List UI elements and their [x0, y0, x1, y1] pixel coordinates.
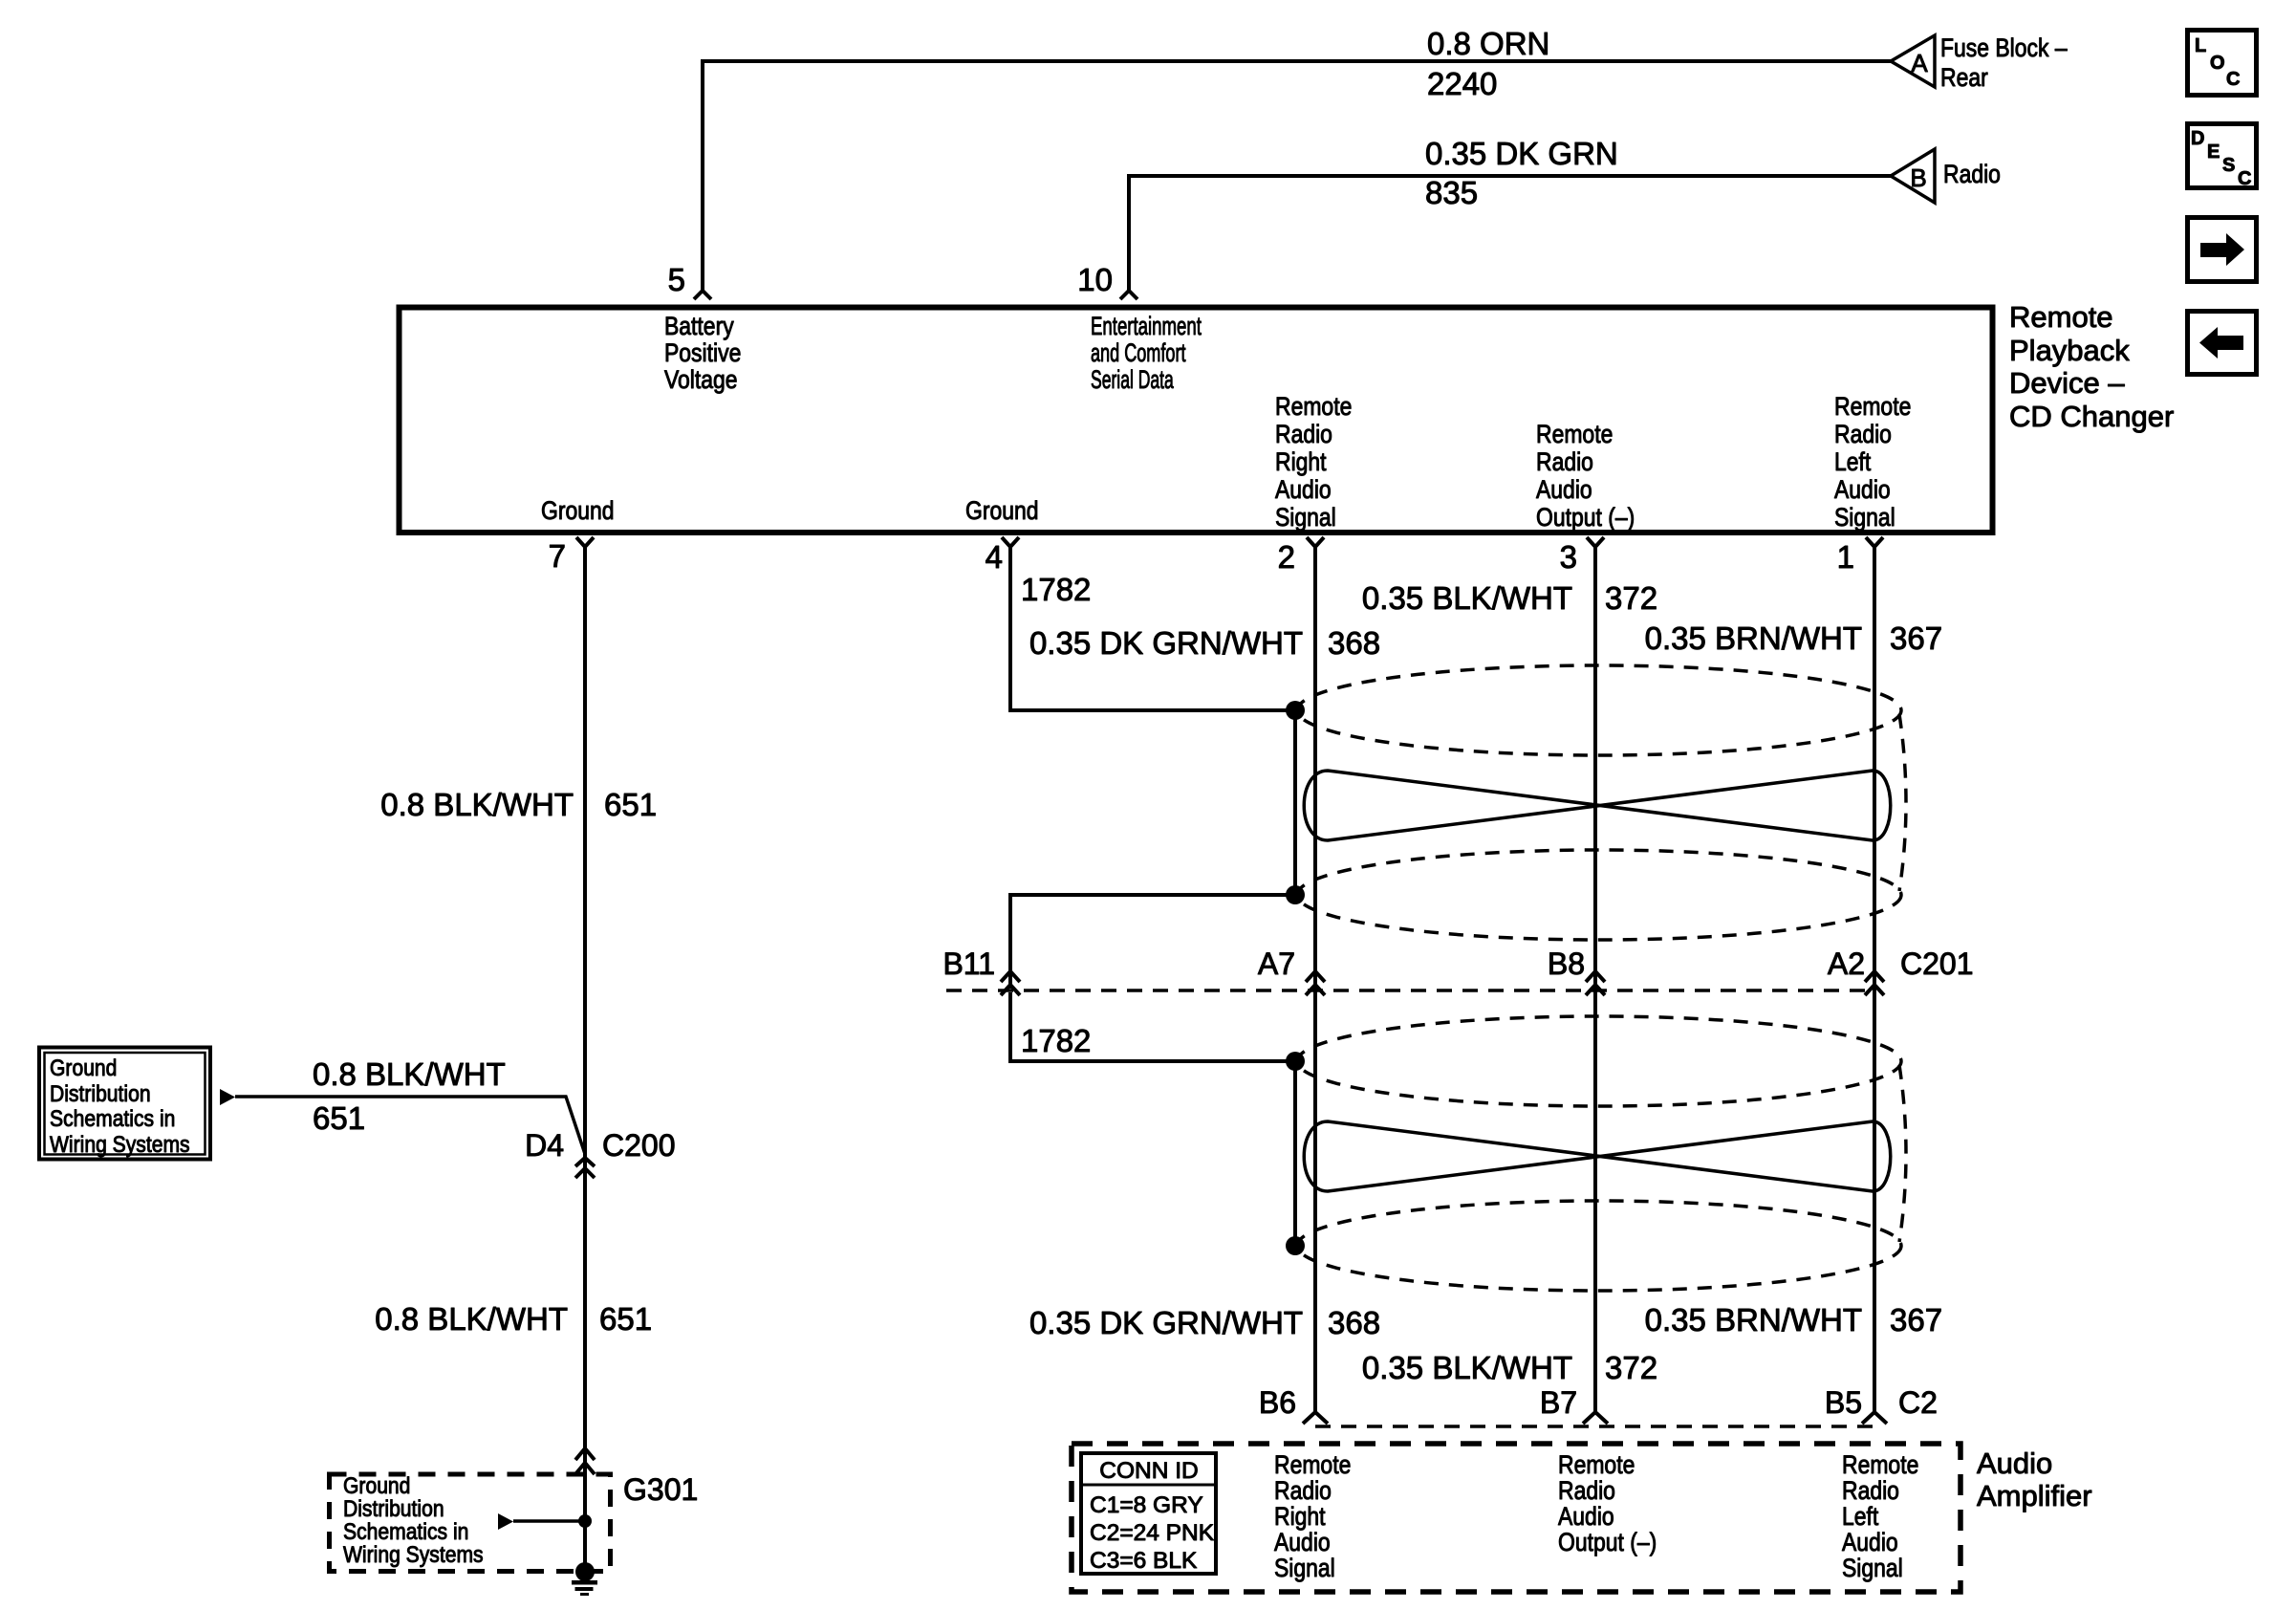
svg-text:0.8 BLK/WHT: 0.8 BLK/WHT [380, 787, 574, 822]
svg-text:835: 835 [1425, 175, 1478, 210]
svg-text:Audio: Audio [1275, 475, 1332, 504]
svg-text:0.35 BRN/WHT: 0.35 BRN/WHT [1645, 1302, 1862, 1338]
svg-text:Entertainment: Entertainment [1091, 312, 1202, 340]
svg-text:B5: B5 [1825, 1385, 1862, 1420]
svg-text:Remote: Remote [1834, 392, 1911, 421]
svg-text:Radio: Radio [1943, 160, 2001, 188]
svg-text:Playback: Playback [2009, 334, 2130, 367]
svg-text:Audio: Audio [1977, 1447, 2052, 1480]
svg-text:Audio: Audio [1842, 1528, 1898, 1556]
svg-text:0.35 BLK/WHT: 0.35 BLK/WHT [1362, 1350, 1572, 1385]
svg-text:C2: C2 [1898, 1385, 1938, 1420]
svg-text:Remote: Remote [1536, 420, 1613, 448]
svg-text:0.8 BLK/WHT: 0.8 BLK/WHT [313, 1056, 506, 1092]
svg-text:Rear: Rear [1940, 63, 1988, 92]
svg-text:Radio: Radio [1842, 1476, 1899, 1505]
svg-text:Signal: Signal [1275, 503, 1336, 532]
svg-text:Voltage: Voltage [664, 365, 738, 394]
svg-text:Remote: Remote [1558, 1450, 1635, 1479]
svg-text:372: 372 [1605, 1350, 1657, 1385]
svg-text:4: 4 [986, 539, 1003, 575]
svg-text:Amplifier: Amplifier [1977, 1479, 2092, 1512]
svg-text:Audio: Audio [1558, 1502, 1614, 1531]
svg-text:Audio: Audio [1834, 475, 1891, 504]
svg-text:2: 2 [1278, 539, 1295, 575]
svg-text:C1=8 GRY: C1=8 GRY [1090, 1492, 1203, 1518]
svg-text:0.35 DK GRN/WHT: 0.35 DK GRN/WHT [1029, 625, 1303, 661]
svg-text:368: 368 [1328, 625, 1380, 661]
svg-text:C3=6 BLK: C3=6 BLK [1090, 1548, 1198, 1574]
svg-text:Battery: Battery [664, 312, 734, 340]
svg-text:Fuse Block –: Fuse Block – [1940, 33, 2068, 62]
svg-text:A7: A7 [1258, 946, 1295, 981]
svg-text:C200: C200 [602, 1128, 676, 1163]
svg-text:367: 367 [1890, 1302, 1942, 1338]
svg-text:Ground: Ground [50, 1055, 117, 1081]
svg-text:Ground: Ground [343, 1473, 410, 1499]
svg-text:Distribution: Distribution [343, 1496, 444, 1522]
svg-text:5: 5 [668, 262, 685, 297]
svg-text:0.35 DK GRN/WHT: 0.35 DK GRN/WHT [1029, 1305, 1303, 1340]
svg-text:B11: B11 [942, 946, 995, 981]
svg-text:O: O [2210, 53, 2225, 74]
svg-text:Radio: Radio [1275, 420, 1332, 448]
svg-text:CONN ID: CONN ID [1099, 1458, 1198, 1484]
svg-text:Schematics in: Schematics in [343, 1519, 468, 1545]
svg-text:Output (–): Output (–) [1536, 503, 1635, 532]
svg-text:A: A [1911, 49, 1928, 77]
svg-text:Wiring Systems: Wiring Systems [50, 1132, 190, 1158]
svg-text:Remote: Remote [1274, 1450, 1351, 1479]
svg-text:Audio: Audio [1274, 1528, 1331, 1556]
svg-text:Ground: Ground [965, 496, 1039, 525]
svg-text:S: S [2222, 155, 2235, 176]
svg-text:Radio: Radio [1558, 1476, 1615, 1505]
svg-text:0.35 BRN/WHT: 0.35 BRN/WHT [1645, 620, 1862, 656]
svg-text:Serial Data: Serial Data [1091, 364, 1174, 394]
svg-text:A2: A2 [1828, 946, 1865, 981]
svg-text:C201: C201 [1900, 946, 1974, 981]
svg-text:10: 10 [1077, 262, 1113, 297]
svg-text:Remote: Remote [1842, 1450, 1918, 1479]
svg-text:Signal: Signal [1274, 1554, 1335, 1582]
svg-text:Right: Right [1274, 1502, 1326, 1531]
svg-text:B6: B6 [1259, 1385, 1296, 1420]
svg-text:L: L [2195, 35, 2206, 56]
svg-text:Remote: Remote [1275, 392, 1352, 421]
svg-text:Signal: Signal [1834, 503, 1895, 532]
svg-text:Schematics in: Schematics in [50, 1106, 175, 1132]
svg-text:372: 372 [1605, 580, 1657, 616]
svg-text:1: 1 [1837, 539, 1854, 575]
svg-text:Right: Right [1275, 447, 1327, 476]
svg-text:Left: Left [1834, 447, 1871, 476]
svg-text:3: 3 [1560, 539, 1577, 575]
svg-text:B8: B8 [1548, 946, 1585, 981]
svg-text:D4: D4 [525, 1128, 564, 1163]
svg-text:0.35 BLK/WHT: 0.35 BLK/WHT [1362, 580, 1572, 616]
svg-text:7: 7 [549, 538, 566, 574]
svg-text:Positive: Positive [664, 338, 741, 367]
svg-text:C2=24 PNK: C2=24 PNK [1090, 1520, 1215, 1546]
svg-text:Wiring Systems: Wiring Systems [343, 1542, 484, 1568]
svg-text:1782: 1782 [1021, 572, 1091, 607]
svg-text:0.8 BLK/WHT: 0.8 BLK/WHT [375, 1301, 568, 1337]
svg-text:368: 368 [1328, 1305, 1380, 1340]
svg-text:D: D [2191, 128, 2204, 149]
svg-text:Radio: Radio [1536, 447, 1593, 476]
svg-text:651: 651 [599, 1301, 652, 1337]
svg-text:0.35 DK GRN: 0.35 DK GRN [1425, 136, 1618, 171]
svg-text:Device –: Device – [2009, 366, 2125, 400]
svg-text:C: C [2238, 168, 2251, 189]
svg-text:B: B [1910, 163, 1926, 192]
svg-text:1782: 1782 [1021, 1023, 1091, 1058]
svg-text:Ground: Ground [541, 496, 615, 525]
svg-text:C: C [2226, 69, 2240, 90]
svg-text:Distribution: Distribution [50, 1081, 151, 1107]
svg-text:and Comfort: and Comfort [1091, 337, 1186, 367]
svg-text:651: 651 [313, 1100, 365, 1136]
svg-text:Output (–): Output (–) [1558, 1528, 1657, 1556]
svg-text:Signal: Signal [1842, 1554, 1903, 1582]
svg-text:Radio: Radio [1834, 420, 1892, 448]
svg-text:E: E [2207, 141, 2220, 163]
svg-text:Radio: Radio [1274, 1476, 1332, 1505]
svg-text:G301: G301 [623, 1472, 698, 1507]
svg-text:CD Changer: CD Changer [2009, 400, 2174, 433]
svg-text:651: 651 [604, 787, 657, 822]
svg-text:2240: 2240 [1427, 66, 1497, 101]
svg-text:367: 367 [1890, 620, 1942, 656]
svg-text:B7: B7 [1540, 1385, 1577, 1420]
svg-text:Remote: Remote [2009, 300, 2113, 334]
svg-text:Audio: Audio [1536, 475, 1592, 504]
svg-text:0.8 ORN: 0.8 ORN [1427, 26, 1549, 61]
svg-text:Left: Left [1842, 1502, 1878, 1531]
